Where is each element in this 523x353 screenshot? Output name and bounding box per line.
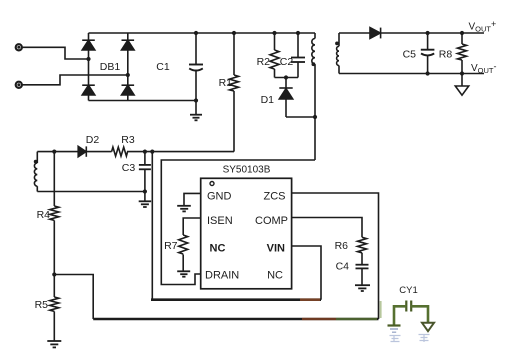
node primary D1 junction xyxy=(313,115,317,119)
svg-text:C3: C3 xyxy=(122,162,136,174)
pin ZCS stub wire xyxy=(292,193,379,319)
ground under C3 xyxy=(139,192,151,208)
node R1 top xyxy=(232,31,236,35)
node C1 top xyxy=(194,31,198,35)
svg-text:NC: NC xyxy=(210,243,226,255)
wire DRAIN loop xyxy=(161,160,315,285)
svg-text:R2: R2 xyxy=(257,56,271,68)
svg-text:VOUT+: VOUT+ xyxy=(469,19,497,34)
wire secondary bottom rail xyxy=(339,73,484,75)
diode D1 xyxy=(279,78,292,118)
svg-text:R4: R4 xyxy=(37,209,51,221)
node C3 bottom xyxy=(143,189,147,193)
wire top rail primary side xyxy=(89,32,316,34)
svg-text:C1: C1 xyxy=(156,61,170,73)
transformer secondary winding xyxy=(337,33,339,74)
CY1 right wire xyxy=(411,306,428,322)
svg-text:SY50103B: SY50103B xyxy=(223,165,271,176)
wire secondary top rail xyxy=(339,32,370,34)
auxiliary winding xyxy=(34,152,37,192)
svg-text:NC: NC xyxy=(267,270,283,282)
svg-text:ZCS: ZCS xyxy=(264,191,286,203)
ground under C4 xyxy=(355,285,370,291)
diode bottom-left xyxy=(82,85,95,95)
pin1 marker xyxy=(210,182,214,186)
wire ZCS bottom bus xyxy=(93,318,378,321)
resistor R6 xyxy=(358,237,367,264)
pin GND stub wire xyxy=(184,193,201,205)
svg-text:VIN: VIN xyxy=(267,243,285,255)
svg-text:D1: D1 xyxy=(261,94,275,106)
svg-text:R7: R7 xyxy=(164,240,178,252)
wire diode to vout xyxy=(381,32,484,34)
svg-text:R1: R1 xyxy=(219,77,233,89)
primary polarity dot xyxy=(312,62,316,66)
ground under R5 xyxy=(47,341,61,347)
node C3 top xyxy=(143,150,147,154)
node divider xyxy=(52,272,56,276)
svg-text:R6: R6 xyxy=(335,240,349,252)
svg-text:R3: R3 xyxy=(121,134,135,146)
node C5 bottom xyxy=(426,71,430,75)
svg-text:ISEN: ISEN xyxy=(207,215,233,227)
wire VIN riser xyxy=(292,246,321,300)
node R8 bottom xyxy=(460,71,464,75)
input terminal bottom xyxy=(16,82,22,88)
node input-right junction xyxy=(126,73,130,77)
capacitor C5 xyxy=(421,33,435,74)
svg-text:C5: C5 xyxy=(403,49,417,61)
ground at GND pin xyxy=(177,206,191,212)
svg-text:D2: D2 xyxy=(86,134,100,146)
ground under R7 xyxy=(177,271,190,276)
output ground triangle xyxy=(455,86,468,95)
aux polarity dot xyxy=(34,160,38,164)
wire D2 to R3 xyxy=(86,151,111,153)
resistor R8 xyxy=(458,33,467,74)
wire VIN bottom bus xyxy=(151,298,321,301)
node C1 bottom xyxy=(194,98,198,102)
wire divider to ZCS bus xyxy=(54,275,93,320)
capacitor C3 xyxy=(139,152,151,192)
resistor R4 xyxy=(50,152,59,275)
svg-text:R8: R8 xyxy=(439,49,453,61)
resistor R1 xyxy=(230,33,239,152)
watermark tint green along ZCS vertical xyxy=(380,301,382,318)
transformer primary winding xyxy=(312,33,315,160)
watermark glyph left xyxy=(390,335,401,342)
watermark glyph right xyxy=(419,334,430,342)
wire aux bottom rail xyxy=(37,191,145,193)
wire bottom rail bridge to C1 xyxy=(89,100,197,102)
watermark tint orange on ZCS bus xyxy=(302,318,336,321)
diode top-right xyxy=(122,40,135,50)
output diode xyxy=(370,28,381,39)
watermark tint green on ZCS bus xyxy=(336,318,377,321)
wire input bottom to bridge xyxy=(22,75,128,85)
resistor R2 xyxy=(270,33,279,78)
diode bottom-right xyxy=(122,85,135,95)
node snubber bottom xyxy=(284,75,288,79)
wire D1 to primary xyxy=(286,116,315,118)
IC U1 SY50103B box xyxy=(201,178,292,288)
input terminal top xyxy=(16,44,22,50)
pin ISEN stub wire xyxy=(183,218,201,235)
node R8 top xyxy=(460,31,464,35)
wire aux top rail xyxy=(37,151,78,153)
CY1 left earth ground xyxy=(388,324,401,326)
resistor R5 xyxy=(50,275,59,342)
svg-text:C4: C4 xyxy=(336,261,350,273)
CY1 right chassis ground xyxy=(422,323,434,331)
svg-text:C2: C2 xyxy=(280,56,294,68)
capacitor C4 xyxy=(356,265,369,285)
pin COMP stub wire xyxy=(292,218,362,238)
svg-text:R5: R5 xyxy=(35,299,49,311)
capacitor C1 xyxy=(189,33,203,101)
svg-text:CY1: CY1 xyxy=(399,285,417,296)
resistor R3 xyxy=(112,147,128,156)
wire R2 C2 bottom bar xyxy=(275,77,299,79)
wire VIN loop xyxy=(151,152,153,300)
diode top-left xyxy=(82,40,95,50)
ground under C1 xyxy=(190,101,202,121)
resistor R7 xyxy=(179,235,188,271)
wire input top to bridge xyxy=(22,47,88,59)
bridge rectifier DB1 xyxy=(82,33,134,101)
node input-left junction xyxy=(86,57,90,61)
capacitor C2 xyxy=(291,33,305,78)
wire R3 to R1 bottom xyxy=(127,151,234,153)
diode D2 xyxy=(78,146,86,156)
svg-text:GND: GND xyxy=(207,191,232,203)
watermark tint orange on VIN bus xyxy=(300,298,320,301)
node VIN loop top xyxy=(150,150,154,154)
svg-text:DB1: DB1 xyxy=(100,61,121,73)
capacitor CY1 xyxy=(388,301,435,333)
svg-text:VOUT-: VOUT- xyxy=(471,62,497,76)
CY1 left wire xyxy=(394,306,406,325)
svg-text:COMP: COMP xyxy=(255,215,288,227)
node C5 top xyxy=(426,31,430,35)
wire to output ground xyxy=(461,74,463,87)
node R4 top xyxy=(52,150,56,154)
svg-text:DRAIN: DRAIN xyxy=(205,270,239,282)
secondary polarity dot xyxy=(335,42,339,46)
node C2 top xyxy=(296,31,300,35)
node R2 top xyxy=(272,31,276,35)
